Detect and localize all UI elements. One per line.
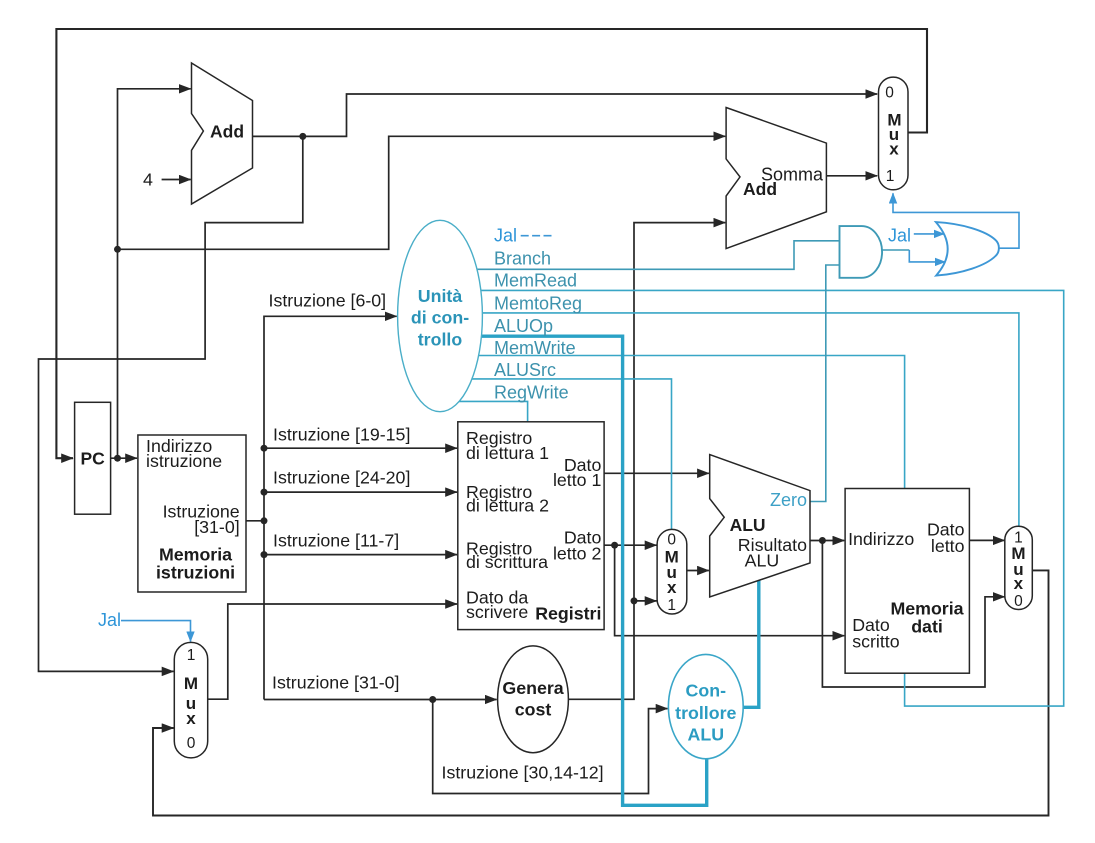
- junction Istruzione [30,14-12] tap: [429, 696, 436, 703]
- wire: Jal dashed stub: [521, 235, 553, 237]
- wire: MemtoReg to final mux select: [482, 313, 1019, 526]
- wire: instruction bus vertical: [264, 316, 397, 699]
- svg-text:letto: letto: [931, 536, 965, 556]
- svg-text:x: x: [889, 140, 899, 159]
- svg-text:Add: Add: [210, 122, 244, 142]
- svg-text:MemWrite: MemWrite: [494, 338, 576, 358]
- svg-text:ALUSrc: ALUSrc: [494, 360, 556, 380]
- svg-text:Istruzione [11-7]: Istruzione [11-7]: [273, 530, 399, 550]
- wire: PC up to Add: [118, 89, 191, 458]
- gate AND: [840, 226, 883, 278]
- svg-text:Jal: Jal: [888, 226, 911, 246]
- svg-text:di lettura 1: di lettura 1: [466, 443, 549, 463]
- wire: immediate branch to mid mux input 1: [634, 600, 657, 602]
- svg-text:ALU: ALU: [688, 724, 725, 744]
- junction PC branch to Somma Add: [114, 246, 121, 253]
- svg-text:1: 1: [187, 647, 196, 664]
- svg-text:scrivere: scrivere: [466, 602, 528, 622]
- svg-text:MemtoReg: MemtoReg: [494, 294, 582, 314]
- wire: Istruzione [19-15]: [264, 447, 457, 449]
- svg-text:MemRead: MemRead: [494, 271, 577, 291]
- register PC: [75, 402, 111, 514]
- block Memoria dati: [845, 489, 969, 674]
- svg-text:0: 0: [885, 85, 894, 102]
- adder Add (PC+4): [192, 63, 253, 204]
- mux final (MemtoReg): [1005, 526, 1033, 609]
- junction PC+4: [299, 133, 306, 140]
- svg-text:[31-0]: [31-0]: [194, 517, 239, 537]
- svg-text:x: x: [186, 709, 196, 728]
- wire: ALU result bypass to final mux input 0: [822, 541, 1004, 688]
- svg-text:istruzione: istruzione: [146, 451, 222, 471]
- wire: Istruzione [30,14-12] to Controllore ALU: [433, 700, 668, 794]
- svg-text:dati: dati: [911, 616, 943, 636]
- junction immediate to mux: [631, 597, 638, 604]
- svg-text:ALUOp: ALUOp: [494, 316, 553, 336]
- svg-text:trollo: trollo: [418, 329, 463, 349]
- svg-text:istruzioni: istruzioni: [156, 562, 235, 582]
- wire: Dato letto 1 to ALU: [604, 472, 709, 474]
- ellipse Controllore ALU: [668, 654, 743, 758]
- wire: Zero from ALU to AND gate: [810, 265, 840, 502]
- svg-text:0: 0: [187, 735, 196, 752]
- wire: immediate vertical Genera cost to Somma Add: [568, 223, 725, 700]
- svg-text:0: 0: [1014, 593, 1023, 610]
- svg-text:Con-: Con-: [686, 681, 727, 701]
- junction Dato letto 2: [611, 542, 618, 549]
- svg-text:di lettura 2: di lettura 2: [466, 495, 549, 515]
- svg-text:Registri: Registri: [535, 604, 601, 624]
- svg-text:Genera: Genera: [502, 678, 563, 698]
- svg-text:Branch: Branch: [494, 249, 551, 269]
- wire: mid mux output to ALU: [686, 570, 709, 572]
- mux top-right: [879, 77, 909, 190]
- wire: PC branch to Somma Add top input: [118, 136, 726, 249]
- svg-text:Indirizzo: Indirizzo: [848, 529, 914, 549]
- svg-text:x: x: [667, 578, 677, 597]
- svg-text:Zero: Zero: [770, 490, 807, 510]
- svg-text:di con-: di con-: [411, 308, 469, 328]
- svg-text:Istruzione [30,14-12]: Istruzione [30,14-12]: [442, 763, 604, 783]
- svg-text:Istruzione [24-20]: Istruzione [24-20]: [273, 468, 410, 488]
- svg-text:Jal: Jal: [98, 610, 121, 630]
- wire: Dato letto 2 down to Dato scritto: [615, 545, 845, 636]
- wire: instruction memory output to bus: [246, 520, 264, 522]
- svg-text:Unità: Unità: [418, 286, 463, 306]
- wire: Istruzione [31-0] to Genera cost: [264, 699, 497, 701]
- wire: Istruzione [11-7]: [264, 554, 457, 556]
- svg-text:ALU: ALU: [730, 515, 766, 535]
- wire: Dato letto to final mux input 1: [969, 539, 1004, 541]
- wire: ALUOp thick to Controllore ALU: [481, 336, 706, 805]
- gate OR: [936, 222, 999, 276]
- wire: OR gate output loop to top mux select: [893, 193, 1019, 248]
- block Memoria istruzioni: [138, 435, 246, 592]
- svg-text:di scrittura: di scrittura: [466, 552, 548, 572]
- svg-text:Add: Add: [743, 179, 777, 199]
- wire: Mux(top) output loop to PC input: [56, 29, 927, 458]
- mux mid (ALUSrc): [657, 529, 687, 614]
- wire: AND output stub: [882, 249, 909, 251]
- svg-text:RegWrite: RegWrite: [494, 383, 569, 403]
- svg-text:PC: PC: [80, 449, 105, 469]
- svg-text:4: 4: [143, 170, 153, 190]
- svg-text:letto 2: letto 2: [553, 544, 601, 564]
- mux Jal (bottom-left): [174, 642, 207, 758]
- junction bus Istruzione [11-7]: [261, 551, 268, 558]
- wire: PC output to instruction memory: [111, 457, 137, 459]
- wire: ALU result to Memoria dati: [810, 540, 844, 542]
- wire: Jal mux output to Dato da scrivere: [208, 604, 457, 699]
- svg-text:scritto: scritto: [852, 631, 900, 651]
- wire: ALUSrc to mid mux select: [472, 379, 672, 530]
- svg-text:Istruzione [31-0]: Istruzione [31-0]: [272, 673, 400, 693]
- adder Somma Add (branch target): [726, 108, 826, 249]
- svg-text:trollore: trollore: [675, 703, 736, 723]
- svg-text:M: M: [184, 674, 198, 693]
- svg-text:1: 1: [886, 168, 895, 185]
- svg-text:x: x: [1014, 574, 1024, 593]
- svg-text:Istruzione [19-15]: Istruzione [19-15]: [273, 425, 410, 445]
- wire: final mux output loop to Jal mux input 0: [153, 570, 1049, 815]
- wire: Controllore ALU output thick to ALU: [743, 580, 759, 707]
- wire: Jal select to bottom-left mux: [121, 621, 191, 642]
- svg-text:letto 1: letto 1: [553, 470, 602, 490]
- ALU: [710, 455, 810, 597]
- junction PC output: [114, 455, 121, 462]
- svg-text:1: 1: [667, 597, 676, 614]
- svg-text:ALU: ALU: [745, 550, 780, 570]
- wire: Branch to AND gate: [477, 241, 840, 269]
- junction ALU result: [819, 537, 826, 544]
- junction bus Istruzione [19-15]: [261, 445, 268, 452]
- junction bus Istruzione [31-0] output: [261, 517, 268, 524]
- block Registri: [458, 422, 604, 630]
- ellipse Unità di controllo: [398, 220, 483, 411]
- wire: Somma Add output to top Mux input 1: [826, 175, 877, 177]
- wire: Dato letto 2 to mid mux: [604, 544, 656, 546]
- wire: constant 4 into Add: [162, 179, 191, 181]
- wire: RegWrite to Registri top: [459, 401, 527, 421]
- svg-text:cost: cost: [515, 700, 552, 720]
- wire: Jal to OR gate input: [914, 233, 944, 235]
- wire: Add output to top Mux input 0: [253, 94, 878, 136]
- wire: AND output step to OR gate input: [909, 250, 945, 262]
- svg-text:0: 0: [667, 532, 676, 549]
- junction bus Istruzione [24-20]: [261, 489, 268, 496]
- wire: PC+4 down to Jal mux input 1: [39, 136, 303, 671]
- wire: MemWrite to Memoria dati top: [479, 356, 905, 489]
- svg-text:Jal: Jal: [494, 226, 517, 246]
- svg-text:Istruzione [6-0]: Istruzione [6-0]: [269, 290, 387, 310]
- wire: Istruzione [24-20]: [264, 491, 457, 493]
- wire: MemRead to Memoria dati bottom: [481, 290, 1064, 706]
- ellipse Genera cost: [498, 646, 569, 753]
